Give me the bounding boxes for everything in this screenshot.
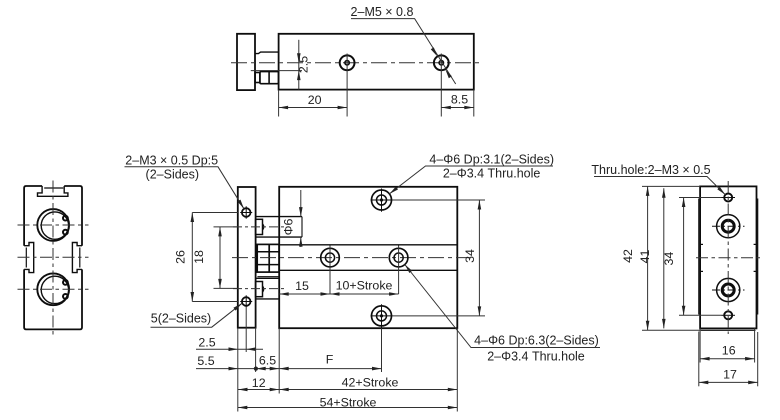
- lower bore screw holes: [63, 280, 68, 285]
- dimension 16: [700, 328, 755, 362]
- label Thru.hole:2-M3 x 0.5 with leader: [591, 163, 726, 196]
- upper rod bushing: [256, 219, 263, 234]
- top sensor T-slot: [38, 186, 68, 196]
- svg-text:10+Stroke: 10+Stroke: [336, 279, 393, 293]
- upper counterbored hole: [712, 215, 745, 238]
- lower bore centerline: [18, 288, 89, 290]
- lower counterbored hole: [712, 278, 745, 301]
- side slot ticks: [700, 244, 756, 271]
- svg-text:20: 20: [308, 93, 322, 107]
- cylinder body (top view): [279, 34, 474, 90]
- left port extension line: [329, 246, 331, 295]
- right air port: [389, 248, 408, 267]
- left side sensor T-slot: [24, 243, 34, 273]
- label 2-M5 x 0.8 with leader: [351, 5, 456, 84]
- rod end plate (front view): [238, 187, 256, 328]
- svg-text:41: 41: [638, 250, 652, 264]
- svg-text:12: 12: [252, 376, 266, 390]
- svg-text:17: 17: [723, 368, 737, 382]
- svg-text:5.5: 5.5: [197, 354, 214, 368]
- lower bore inner chamfer circle: [41, 276, 68, 303]
- dimension 26: [174, 213, 238, 302]
- left air port: [321, 248, 340, 267]
- svg-text:15: 15: [295, 279, 309, 293]
- svg-text:6.5: 6.5: [259, 354, 276, 368]
- rear plate edge bottom: [701, 329, 756, 331]
- washer line under nut: [257, 276, 279, 278]
- lower piston rod: [256, 278, 280, 299]
- dimension 12 / 42+Stroke: [238, 328, 457, 411]
- piston rod (top view): [255, 52, 279, 54]
- dimension 5.5 / 6.5 / F: [196, 328, 382, 412]
- bottom M3 thru hole: [722, 311, 736, 319]
- svg-text:4–Φ6 Dp:3.1(2–Sides): 4–Φ6 Dp:3.1(2–Sides): [429, 153, 554, 167]
- svg-text:2–M5 × 0.8: 2–M5 × 0.8: [351, 5, 414, 19]
- rod nut (top view): [255, 72, 278, 84]
- extension line from left hole: [346, 54, 348, 117]
- dimension 17: [699, 332, 758, 387]
- dimension 54+Stroke: [238, 396, 457, 410]
- dimension 41: [638, 188, 666, 328]
- dimension 42: [621, 186, 701, 330]
- svg-text:42+Stroke: 42+Stroke: [342, 376, 399, 390]
- port hole left (top view): [340, 55, 355, 70]
- cylinder body (front view): [279, 187, 457, 328]
- svg-text:2.5: 2.5: [198, 336, 215, 350]
- lower rod centerline: [233, 288, 284, 290]
- upper bore screw holes: [63, 216, 68, 221]
- middle centerline: [18, 256, 89, 258]
- vertical centerline: [52, 181, 54, 335]
- lower cylinder bore: [37, 273, 69, 305]
- upper rod centerline: [233, 226, 284, 228]
- label 2-M3 x 0.5 Dp:5 (2-Sides) with leader: [125, 154, 246, 210]
- svg-text:4–Φ6 Dp:6.3(2–Sides): 4–Φ6 Dp:6.3(2–Sides): [474, 334, 599, 348]
- extension line from right hole: [440, 54, 442, 117]
- body web lines: [279, 244, 457, 246]
- svg-text:2–Φ3.4 Thru.hole: 2–Φ3.4 Thru.hole: [487, 350, 585, 364]
- svg-text:18: 18: [192, 250, 206, 264]
- upper bore inner chamfer circle: [41, 212, 68, 239]
- svg-text:16: 16: [722, 344, 736, 358]
- body outline (right end view): [700, 186, 756, 328]
- dimension 34 (right view): [662, 198, 722, 316]
- svg-text:34: 34: [463, 249, 477, 263]
- port hole right (top view): [434, 55, 449, 70]
- horizontal centerline: [696, 257, 761, 259]
- dimension 2.5 (plate): [196, 308, 263, 352]
- plate M3 hole top: [240, 206, 252, 218]
- rear plate edge right: [757, 199, 759, 315]
- dimension 18: [192, 227, 238, 289]
- bottom mounting hole (counterbored): [371, 304, 393, 328]
- lower rod bushing: [256, 282, 263, 297]
- right port extension line: [398, 246, 400, 295]
- dimension 15 and 10+Stroke: [279, 279, 398, 296]
- svg-text:(2–Sides): (2–Sides): [146, 168, 200, 182]
- dimension 34 (front view): [393, 200, 486, 316]
- svg-text:42: 42: [621, 249, 635, 263]
- centerline (top view axis): [231, 62, 481, 64]
- top mounting hole (counterbored): [371, 189, 393, 212]
- dimension phi6 (rod): [282, 190, 303, 247]
- svg-text:2–M3 × 0.5 Dp:5: 2–M3 × 0.5 Dp:5: [125, 154, 218, 168]
- body outline (left end view): [24, 186, 82, 329]
- upper cylinder bore: [37, 209, 69, 241]
- vertical centerline: [727, 181, 729, 334]
- end plate (top view): [237, 34, 255, 90]
- svg-text:26: 26: [174, 250, 188, 264]
- top M3 thru hole: [722, 194, 736, 202]
- rear plate edge left: [698, 199, 700, 315]
- center hex nut: [257, 244, 279, 272]
- label 4-phi6 Dp:6.3 with leader: [403, 263, 600, 363]
- svg-text:2.5: 2.5: [297, 56, 311, 73]
- dimension 2.5 (top view): [297, 40, 311, 90]
- dimension 20: [279, 90, 348, 117]
- rod lower edge reference line: [251, 70, 302, 72]
- svg-text:2–Φ3.4 Thru.hole: 2–Φ3.4 Thru.hole: [443, 167, 541, 181]
- upper bore centerline: [18, 224, 89, 226]
- right side sensor T-slot: [72, 243, 82, 273]
- label 4-phi6 Dp:3.1 with leader: [388, 153, 554, 196]
- dimension 8.5: [441, 90, 474, 117]
- plate M3 hole bottom: [240, 295, 252, 307]
- label 5(2-Sides) with leader: [151, 302, 244, 327]
- svg-text:8.5: 8.5: [451, 93, 468, 107]
- svg-text:Thru.hole:2–M3 × 0.5: Thru.hole:2–M3 × 0.5: [591, 163, 710, 177]
- main horizontal centerline: [232, 257, 470, 259]
- upper piston rod: [256, 217, 302, 238]
- svg-text:F: F: [326, 353, 334, 367]
- svg-text:54+Stroke: 54+Stroke: [320, 396, 377, 410]
- svg-text:34: 34: [662, 252, 676, 266]
- svg-text:5(2–Sides): 5(2–Sides): [151, 312, 211, 326]
- svg-text:Φ6: Φ6: [282, 219, 296, 236]
